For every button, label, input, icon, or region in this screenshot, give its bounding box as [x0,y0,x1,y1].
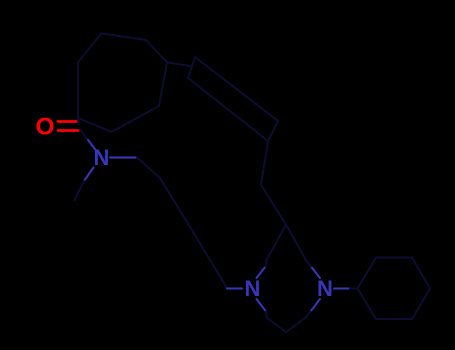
N-methyl (down-left) [84,168,94,182]
bond ring1-ring2 [167,62,190,66]
svg-text:N: N [245,276,261,301]
chain B from amide N to ring N [110,157,137,159]
ring bright half-bonds near N1 [257,267,351,312]
chain A to top apex [261,141,286,225]
dark ring segments of diamine ring [266,225,312,333]
hexagon ring 3 (right, on N2) [358,258,431,320]
bond C(=O)-N [80,129,88,140]
bond ring1 to carbonyl C [77,118,80,124]
C=O double bond [58,122,78,131]
cycloheptane ring (top left) [78,33,167,132]
elongated ring 2 (rails) [188,57,278,141]
svg-text:O: O [35,114,54,141]
svg-text:N: N [317,276,333,301]
